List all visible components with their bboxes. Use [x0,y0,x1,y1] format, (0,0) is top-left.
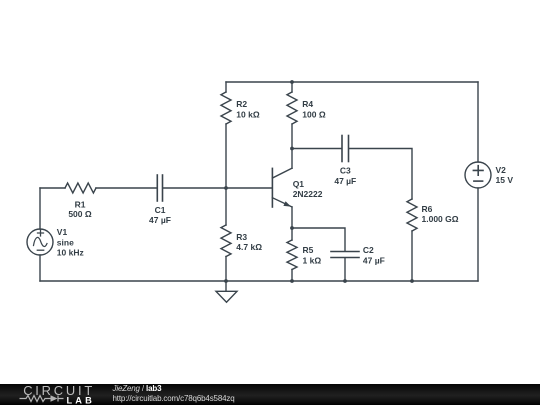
svg-text:10 kHz: 10 kHz [57,248,84,258]
label R4 value [302,99,326,119]
svg-text:sine: sine [57,237,74,247]
svg-text:V1: V1 [57,227,68,237]
voltage source V2 [465,82,491,281]
ground [216,281,237,302]
svg-text:2N2222: 2N2222 [293,189,323,199]
svg-text:47 µF: 47 µF [334,176,356,186]
label V2 value [496,165,514,185]
resistor R1 [40,183,157,193]
svg-text:C3: C3 [340,166,351,176]
capacitor C3 [342,136,349,162]
label V1 value [57,227,84,258]
capacitor C2 [331,252,359,282]
wire base row [163,187,272,189]
svg-text:15 V: 15 V [496,175,514,185]
wire bottom rail [40,280,478,282]
label R2 value [236,99,260,119]
svg-text:R4: R4 [302,99,313,109]
resistor R6 [407,199,417,281]
svg-text:10 kΩ: 10 kΩ [236,109,260,119]
transistor Q1 [272,168,292,207]
label R1 value [68,199,92,218]
svg-text:V2: V2 [496,165,507,175]
label R5 value [303,245,322,265]
node bottom R3 junction [224,279,228,283]
wire emitter [291,207,293,228]
node top rail R4 junction [290,80,294,84]
svg-text:LAB: LAB [67,395,95,405]
resistor R5 [287,228,297,281]
svg-text:4.7 kΩ: 4.7 kΩ [236,242,262,252]
node base row junction [224,186,228,190]
voltage source V1 [27,188,53,281]
svg-text:100 Ω: 100 Ω [302,109,326,119]
label C1 value [149,205,171,225]
node bottom C2 junction [343,279,347,283]
wire collector to C3 [292,148,342,150]
svg-text:1.000 GΩ: 1.000 GΩ [422,214,459,224]
label R3 value [236,232,262,252]
svg-text:500 Ω: 500 Ω [68,209,92,219]
capacitor C1 [157,175,162,201]
CircuitLab logo [0,384,100,405]
svg-text:C2: C2 [363,245,374,255]
label C2 value [363,245,385,265]
node bottom R6 junction [410,279,414,283]
wire emitter to C2 [292,228,345,251]
wire collector [291,149,293,169]
label Q1 value [293,179,323,199]
svg-text:Q1: Q1 [293,179,305,189]
svg-text:47 µF: 47 µF [363,255,385,265]
label C3 value [334,166,356,186]
footer bar [0,384,540,405]
svg-text:R2: R2 [236,99,247,109]
wire C3 to R6 [349,149,412,200]
svg-text:C1: C1 [155,205,166,215]
label R6 value [422,204,459,224]
svg-text:1 kΩ: 1 kΩ [303,255,322,265]
node emitter junction [290,226,294,230]
resistor R2 [221,82,231,188]
footer title text [113,384,162,393]
svg-text:R6: R6 [422,204,433,214]
resistor R3 [221,188,231,281]
resistor R4 [287,82,297,149]
svg-text:R3: R3 [236,232,247,242]
svg-text:R5: R5 [303,245,314,255]
node bottom R5 junction [290,279,294,283]
wire top rail [226,81,478,83]
svg-text:47 µF: 47 µF [149,215,171,225]
footer url text [113,394,235,403]
node collector junction [290,147,294,151]
